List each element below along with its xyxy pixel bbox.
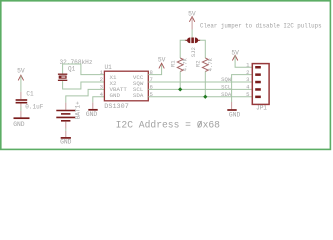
crystal Q1 [58, 74, 67, 80]
capacitor C1 plates [16, 99, 28, 101]
frame border [1, 1, 331, 150]
wire crystal top loop to pin X1 [63, 64, 105, 75]
svg-text:SDA: SDA [221, 91, 232, 98]
connector JP1 box [252, 64, 269, 105]
svg-text:C1: C1 [26, 90, 34, 97]
svg-text:3: 3 [100, 84, 103, 91]
wire 5V to C1 [20, 76, 22, 92]
svg-text:SJ2: SJ2 [190, 47, 197, 57]
svg-text:R1: R1 [170, 60, 177, 67]
ground GND2 bar [88, 109, 97, 111]
svg-text:SQW: SQW [221, 76, 232, 83]
pin stub GND1 [20, 111, 22, 118]
wire crystal bottom to pin X2 [63, 81, 105, 89]
pin stub 5V to SJ2 [191, 17, 193, 29]
wire net SCL [148, 88, 252, 90]
svg-text:2: 2 [100, 76, 103, 83]
supply 5V P4 arrow [232, 55, 237, 60]
solder jumper SJ2 [185, 38, 200, 44]
wire C1 to GND [20, 104, 22, 111]
svg-text:DS1307: DS1307 [104, 103, 129, 110]
resistor R2 zigzag [202, 58, 208, 72]
wire 5V to JP1 pin1 [235, 56, 252, 67]
IC U1 DS1307 box [104, 71, 148, 101]
svg-text:JP1: JP1 [256, 105, 267, 112]
wire VBATT pin3 to battery [66, 89, 105, 102]
wire VCC pin8 to 5V [148, 64, 161, 75]
pin stub C1 top [20, 92, 22, 99]
svg-text:5V: 5V [158, 57, 166, 64]
svg-text:Clear jumper to disable I2C pu: Clear jumper to disable I2C pullups [200, 22, 322, 29]
pin stub battery top [65, 103, 67, 110]
wire net SDA [148, 96, 252, 98]
svg-text:3: 3 [246, 76, 249, 83]
svg-text:32.768kHz: 32.768kHz [60, 59, 93, 66]
supply 5V P1 arrow [18, 75, 23, 80]
wire GND pin4 to ground [93, 97, 105, 103]
wire net SQW [148, 81, 252, 83]
junction dot on SDA [203, 95, 207, 99]
connector JP1 pads [255, 66, 261, 98]
svg-text:I2C Address = 0x68: I2C Address = 0x68 [116, 120, 221, 131]
svg-text:5: 5 [246, 91, 249, 98]
svg-text:GND: GND [229, 112, 241, 119]
pin stub GND4 [231, 102, 233, 109]
svg-text:0.1uF: 0.1uF [25, 104, 43, 111]
svg-text:GND: GND [13, 121, 25, 128]
wire to SJ2 [191, 30, 193, 38]
svg-text:2: 2 [246, 69, 249, 76]
wire JP1 pin2 to GND [232, 75, 253, 102]
wire R2 to SDA [204, 72, 206, 97]
svg-text:GND: GND [60, 139, 72, 146]
resistor R1 zigzag [177, 58, 183, 72]
svg-text:4.7k: 4.7k [207, 57, 214, 71]
svg-text:BAT1+: BAT1+ [74, 101, 81, 119]
supply 5V P3 arrow [159, 63, 164, 68]
wire SJ2 left to R1 [180, 40, 185, 58]
svg-text:SDA: SDA [133, 92, 144, 99]
svg-text:SCL: SCL [221, 83, 231, 90]
svg-text:R2: R2 [195, 60, 202, 67]
battery BAT1 plates [56, 111, 75, 121]
supply 5V P2 arrow [189, 17, 194, 22]
svg-text:GND: GND [86, 111, 98, 118]
note text: I2C Address = 0x68 [116, 120, 221, 131]
wire SJ2 right to R2 [200, 40, 206, 58]
ground GND3 bar [61, 137, 71, 139]
svg-text:4.7k: 4.7k [182, 57, 189, 71]
ground GND1 bar [14, 117, 30, 119]
svg-text:GND: GND [110, 92, 121, 99]
ground GND4 bar [227, 109, 236, 111]
svg-text:5V: 5V [17, 67, 25, 74]
wire battery bottom to GND [65, 122, 67, 129]
svg-text:U1: U1 [105, 64, 113, 71]
pin stub GND2 [92, 102, 94, 109]
junction dot on SCL [178, 87, 182, 91]
wire R1 to SCL [179, 72, 181, 90]
pin stub GND3 [65, 131, 67, 137]
svg-text:Q1: Q1 [68, 66, 76, 73]
